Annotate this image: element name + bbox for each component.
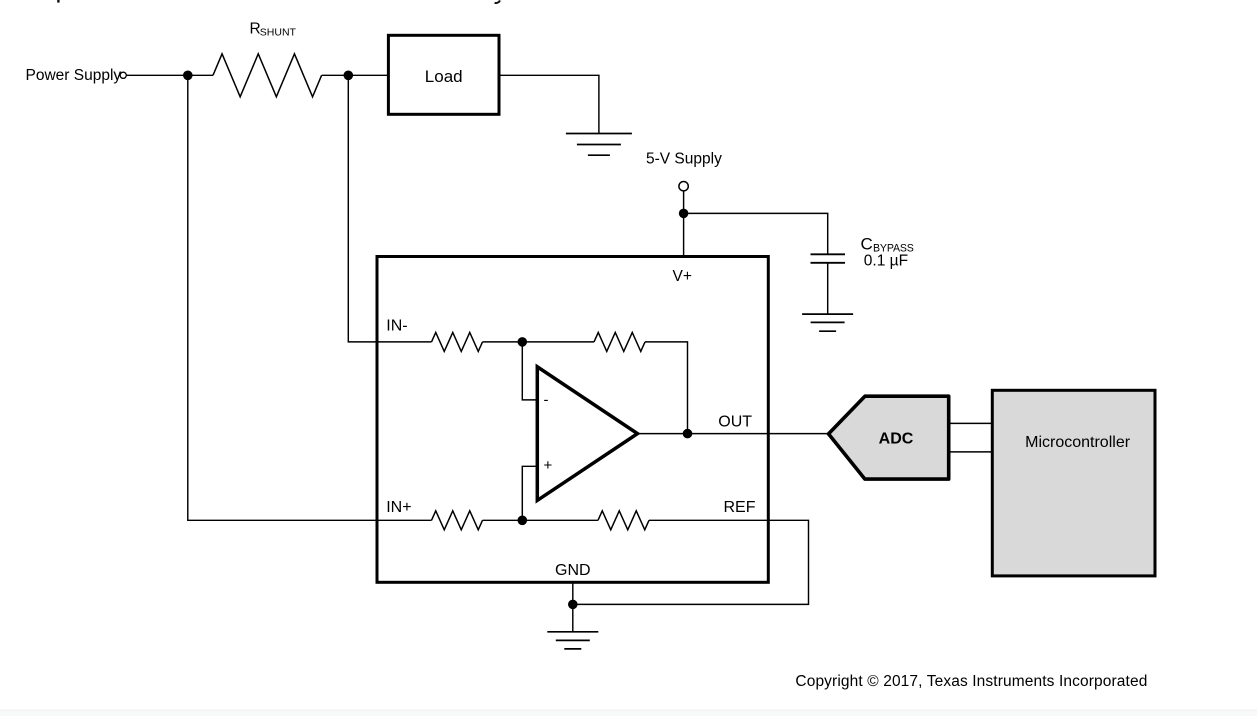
op-amp triangle U1 [537,367,637,501]
resistor feedback [594,332,645,351]
Load block [388,35,499,114]
svg-text:GND: GND [555,562,591,579]
wire IN+ resistor to REF resistor [483,519,599,521]
resistor REF [598,511,649,530]
resistor input IN+ [432,511,483,530]
ADC block [829,396,949,479]
ground (bypass) [802,314,853,331]
wire power supply to R_SHUNT [126,74,213,76]
svg-text:Power Supply: Power Supply [26,67,122,84]
junction node IN- [518,337,528,347]
junction node 5V [679,209,689,219]
svg-text:ADC: ADC [879,430,914,447]
wire GND pin to ground [572,582,574,632]
svg-text:0.1 µF: 0.1 µF [864,252,908,269]
wire noninverting input stub [522,466,537,520]
wire node B down to IN- row [348,75,431,342]
capacitor C_BYPASS [811,254,846,262]
svg-text:Load: Load [425,67,463,86]
svg-text:5-V Supply: 5-V Supply [646,151,722,168]
wire ADC to microcontroller upper [949,422,993,424]
wire capacitor to ground [827,263,829,314]
wire 5V node to bypass capacitor [684,213,828,254]
wire OUT [638,433,829,435]
cut-off text descender p (top edge) [57,0,59,3]
svg-text:REF: REF [724,499,756,516]
svg-text:-: - [544,392,549,409]
svg-text:SHUNT: SHUNT [260,27,297,39]
junction node IN+ [518,516,528,526]
svg-text:IN-: IN- [386,317,407,334]
terminal Power Supply [120,72,126,78]
ground (GND pin) [547,632,598,649]
wire feedback resistor to OUT node [645,342,688,434]
svg-text:C: C [861,234,873,253]
wire R_SHUNT to Load [322,74,389,76]
wire IN- resistor to feedback resistor [483,341,595,343]
wire inverting input stub [522,342,537,400]
bottom toolbar [0,710,1257,711]
wire REF pin to GND node [573,520,809,604]
cut-off text descender y (top edge) [495,0,500,3]
Microcontroller block [992,390,1155,576]
wire ADC to microcontroller lower [949,451,993,453]
junction node B [344,71,354,81]
resistor input IN- [432,332,483,351]
junction node OUT [683,429,693,439]
svg-text:V+: V+ [673,268,692,285]
svg-text:OUT: OUT [718,413,752,430]
junction node GND [568,600,578,610]
svg-text:Copyright © 2017, Texas Instru: Copyright © 2017, Texas Instruments Inco… [795,673,1147,690]
ground (load) [566,134,632,156]
wire node A down to IN+ row [188,75,432,520]
svg-text:+: + [544,457,553,474]
resistor R_SHUNT [213,54,322,97]
svg-text:IN+: IN+ [386,499,411,516]
terminal 5-V Supply [679,182,688,191]
wire 5-V supply to V+ pin [683,191,685,257]
junction node A [183,71,193,81]
wire Load to ground [499,75,599,133]
op-amp IC U1 box [377,257,768,583]
svg-text:Microcontroller: Microcontroller [1025,434,1131,451]
